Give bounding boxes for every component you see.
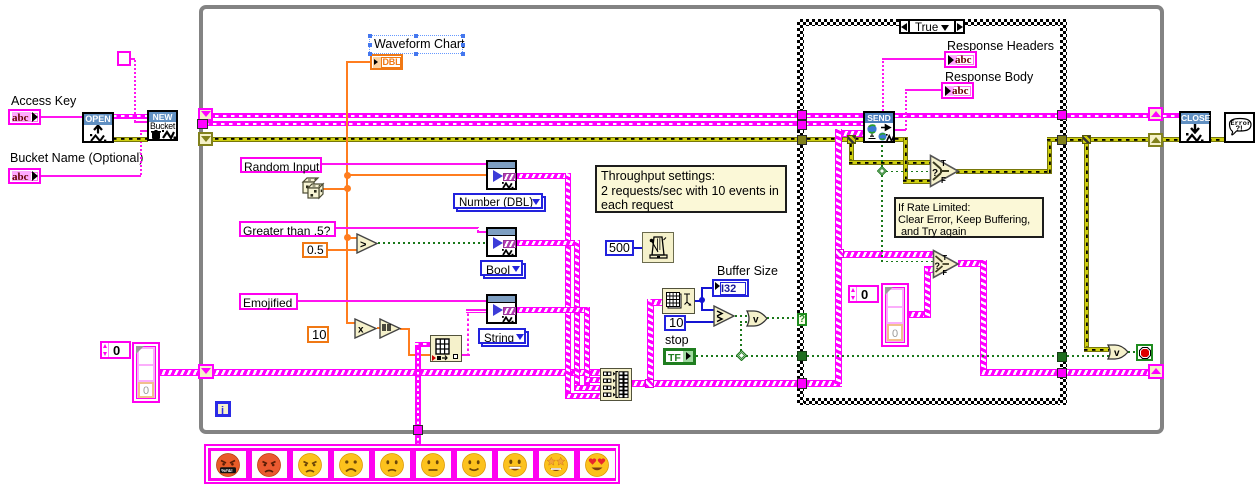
svg-text:F: F: [941, 176, 946, 185]
svg-text:?!: ?!: [1236, 124, 1243, 133]
svg-text:F: F: [943, 268, 948, 277]
svg-text:v: v: [753, 315, 759, 326]
svg-text:v: v: [1114, 348, 1120, 359]
svg-text:%#&!: %#&!: [221, 468, 233, 473]
svg-text:?: ?: [932, 168, 938, 179]
svg-text:T: T: [941, 159, 946, 168]
svg-text:>: >: [360, 239, 366, 251]
svg-text:x: x: [358, 325, 364, 336]
svg-text:?: ?: [935, 261, 941, 271]
svg-text:T: T: [943, 253, 948, 262]
